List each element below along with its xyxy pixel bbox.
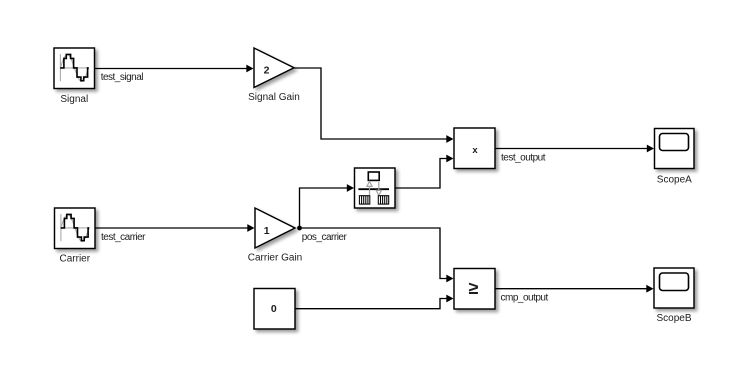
svg-text:ScopeA: ScopeA <box>657 174 692 185</box>
svg-text:pos_carrier: pos_carrier <box>302 232 348 243</box>
svg-text:Carrier Gain: Carrier Gain <box>248 252 302 263</box>
svg-text:cmp_output: cmp_output <box>501 293 549 304</box>
svg-text:Carrier: Carrier <box>60 254 91 265</box>
svg-text:test_carrier: test_carrier <box>101 232 146 243</box>
svg-text:test_signal: test_signal <box>101 72 144 83</box>
svg-text:x: x <box>472 145 478 156</box>
svg-text:≥: ≥ <box>469 278 479 298</box>
svg-text:2: 2 <box>264 64 270 76</box>
svg-text:Signal Gain: Signal Gain <box>248 92 300 103</box>
svg-text:test_output: test_output <box>501 152 546 163</box>
svg-text:Signal: Signal <box>60 94 88 105</box>
svg-text:ScopeB: ScopeB <box>656 313 691 324</box>
svg-text:1: 1 <box>264 225 270 237</box>
svg-text:0: 0 <box>271 303 277 315</box>
